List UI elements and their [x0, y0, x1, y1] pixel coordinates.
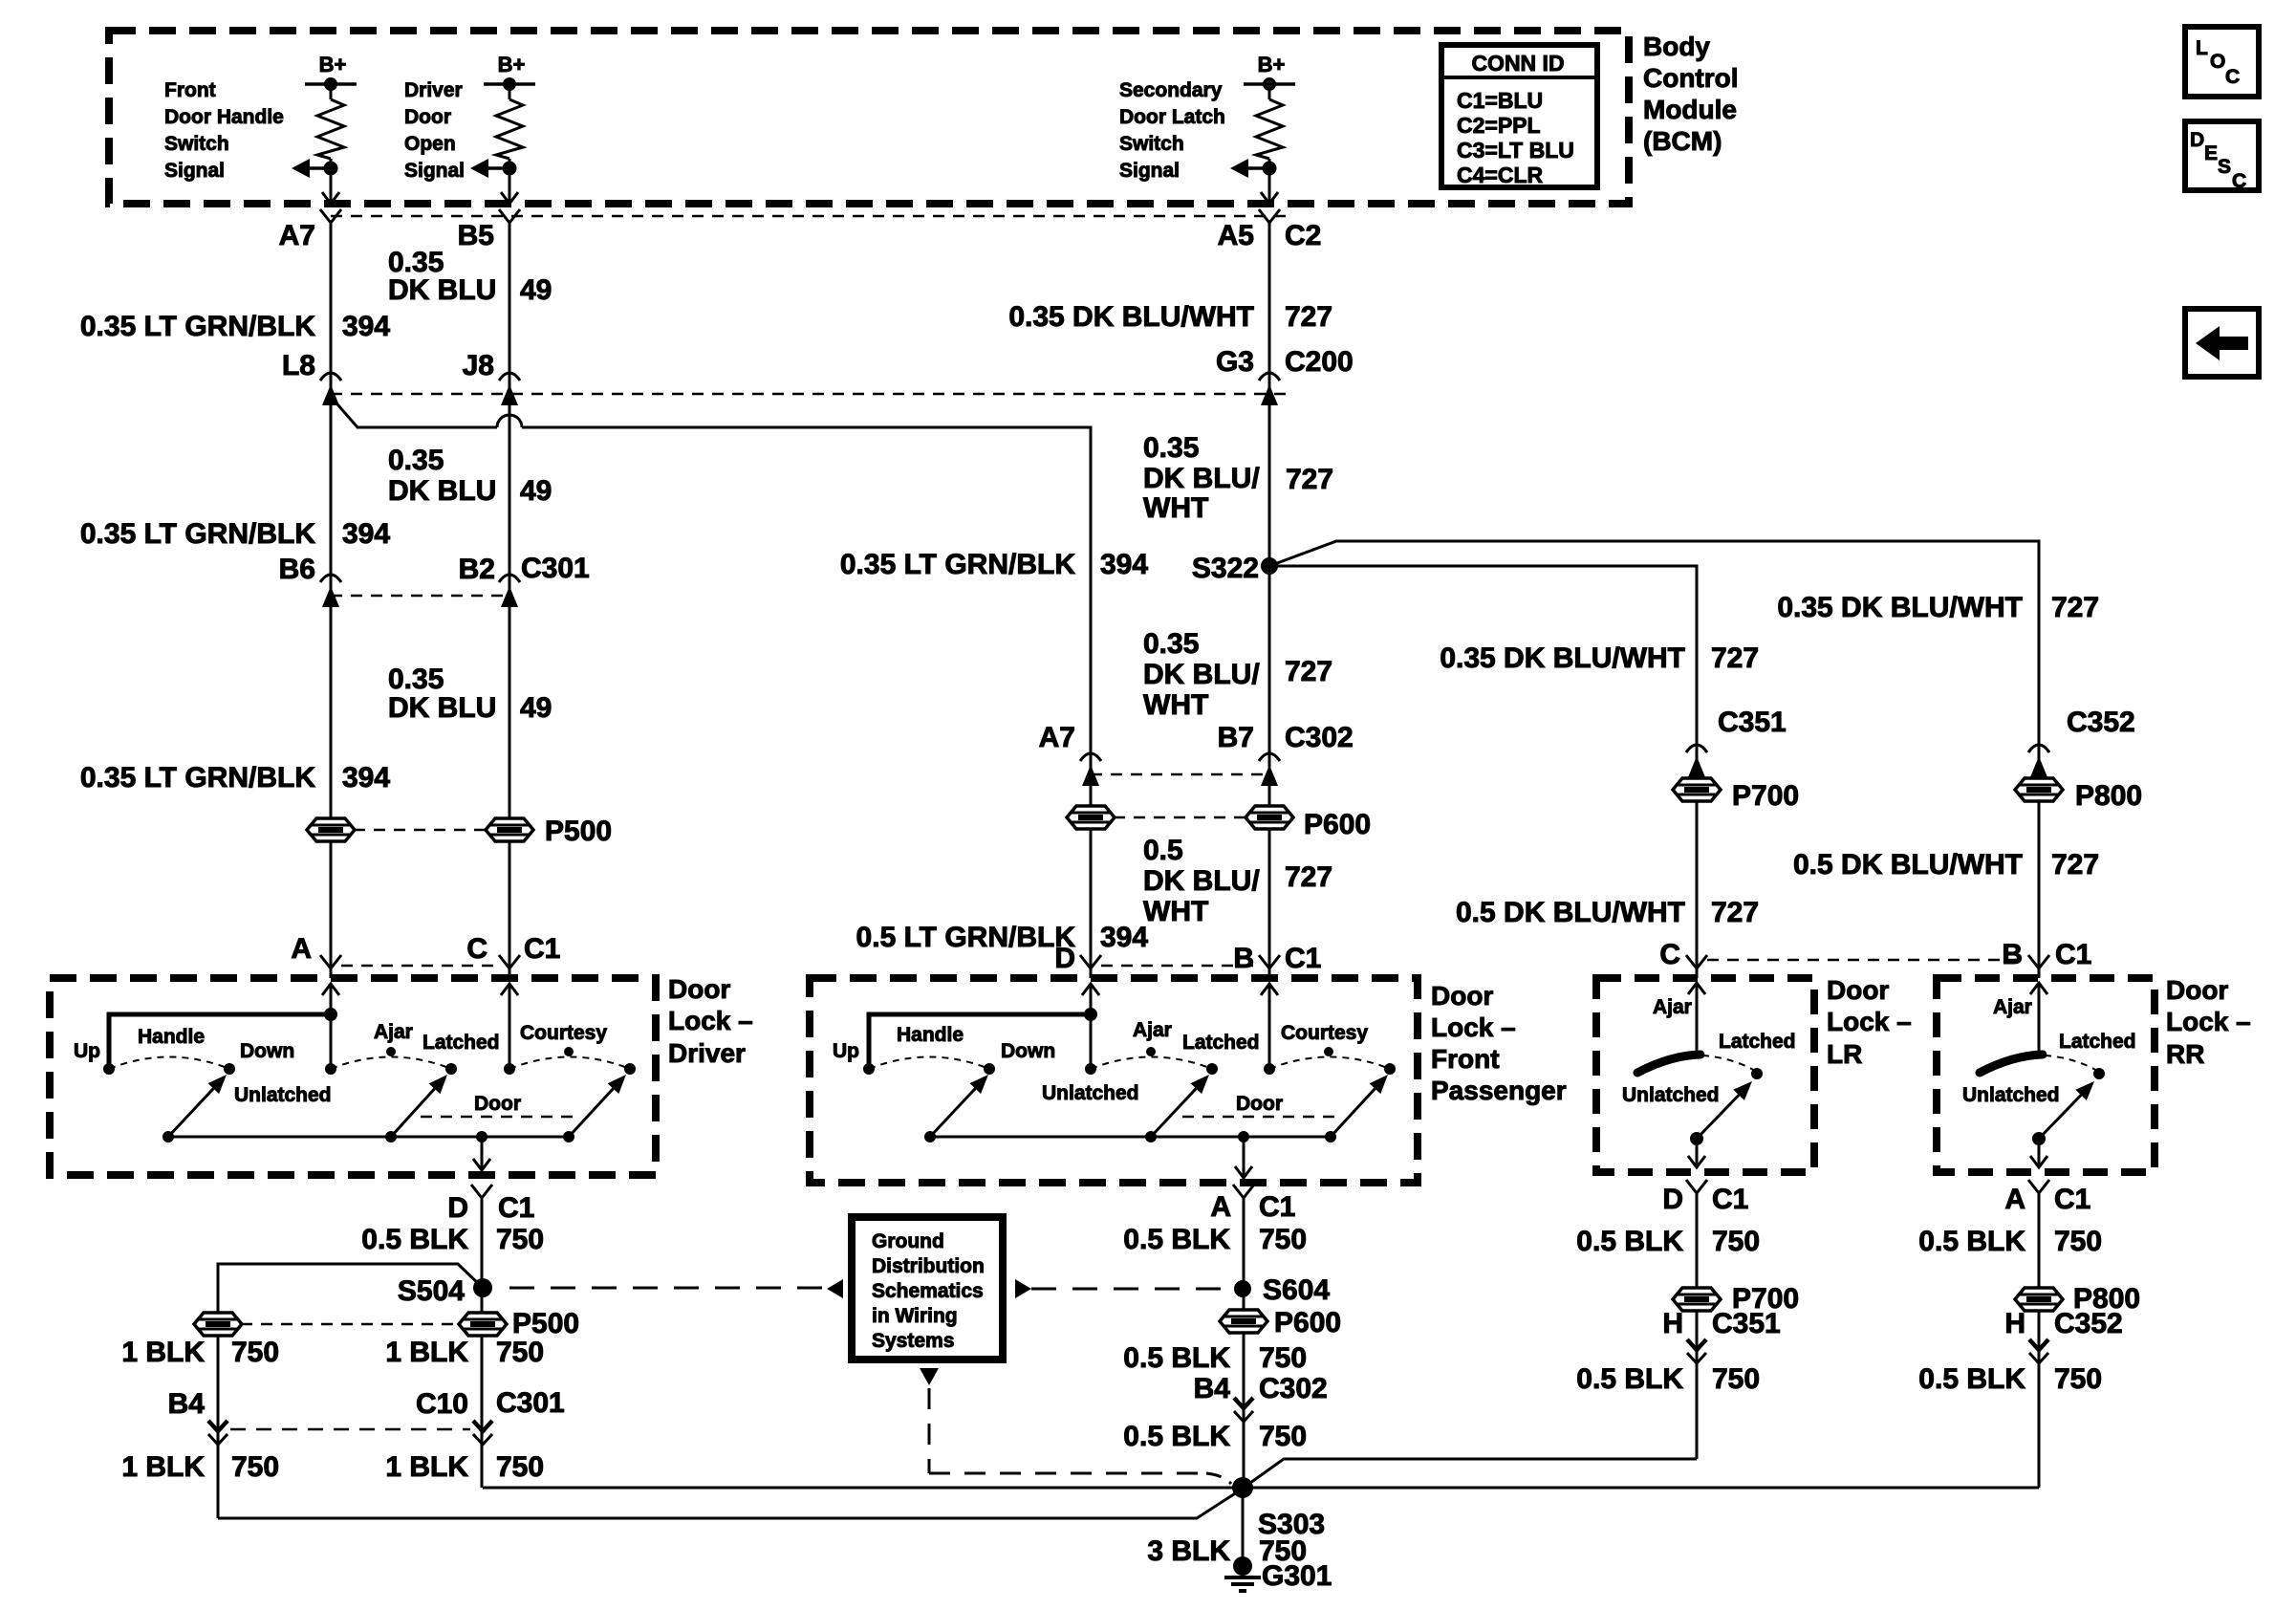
pass-through grommet P500 (driver door boot, ground) [194, 1308, 579, 1339]
svg-text:A7: A7 [1039, 722, 1075, 753]
svg-text:727: 727 [1711, 897, 1759, 928]
pass-through grommet P600 (front passenger door) [1067, 806, 1371, 840]
svg-text:750: 750 [496, 1337, 544, 1368]
driver switch entry arrow (courtesy wire) [501, 984, 518, 1069]
svg-text:0.5 BLK: 0.5 BLK [1123, 1421, 1230, 1452]
driver switch entry arrow (handle wire) [322, 984, 339, 1014]
wire: driver ground drop (x=504) [481, 1198, 484, 1488]
svg-text:C1: C1 [2054, 1184, 2090, 1215]
passenger switch Courtesy arc [1264, 1022, 1396, 1075]
wire label 0.5 DK BLU/WHT 727 (RR column) [1793, 849, 2099, 881]
CONN ID legend box [1441, 45, 1597, 187]
svg-text:CONN ID: CONN ID [1471, 51, 1564, 76]
svg-text:Front: Front [1431, 1044, 1500, 1074]
svg-text:Courtesy: Courtesy [1281, 1022, 1368, 1044]
driver switch common bus [162, 1131, 574, 1142]
pass-through grommet P500 (door harness, signal wires) [307, 816, 612, 847]
svg-text:B+: B+ [319, 53, 347, 76]
svg-text:A: A [2004, 1184, 2025, 1215]
wire label 0.5 BLK 750 (RR lower) [1918, 1363, 2102, 1395]
connector pin C (LR door lock) [1659, 939, 1707, 970]
wire label 0.35 LT GRN/BLK 394 (lower) [80, 762, 391, 794]
svg-text:Passenger: Passenger [1431, 1076, 1567, 1105]
RR ajar switch wire [1993, 983, 2047, 1055]
svg-text:WHT: WHT [1143, 896, 1208, 927]
svg-text:C: C [466, 933, 487, 965]
RR switch latched contact + dashed arc [1962, 1031, 2136, 1106]
splice S303 [1232, 1477, 1325, 1540]
svg-text:727: 727 [1285, 656, 1332, 687]
svg-text:D: D [1662, 1184, 1683, 1215]
driver switch Door linkage [421, 1093, 574, 1117]
connector terminal A7 [279, 209, 341, 251]
wire: driver ground run to S303 [483, 1487, 1243, 1490]
svg-text:A: A [291, 933, 312, 965]
svg-text:RR: RR [2166, 1039, 2204, 1069]
connector C302 ground terminal B4 [1194, 1373, 1328, 1422]
dashed reference: callout to S303 [920, 1368, 1231, 1484]
driver switch output wire [473, 1137, 490, 1170]
svg-text:1 BLK: 1 BLK [385, 1451, 468, 1483]
svg-text:750: 750 [231, 1337, 279, 1368]
svg-text:Lock –: Lock – [1431, 1012, 1516, 1042]
svg-text:727: 727 [2051, 592, 2099, 623]
Door Lock - RR label [2166, 975, 2251, 1069]
Door Lock - Driver dashed box [50, 978, 656, 1175]
svg-text:3 BLK: 3 BLK [1147, 1535, 1230, 1567]
wire label 0.35 LT GRN/BLK 394 (upper) [80, 311, 391, 342]
wire: passenger ground drop (x=1301) [1243, 1198, 1245, 1488]
connector C352 terminal [2028, 707, 2135, 777]
pass-through grommet P800 (RR, ground) [2015, 1283, 2140, 1315]
svg-text:L: L [2196, 37, 2208, 59]
svg-text:Signal: Signal [1119, 160, 1180, 182]
svg-text:Door Handle: Door Handle [164, 106, 284, 128]
svg-text:C352: C352 [2054, 1308, 2123, 1339]
callout left arrow [827, 1279, 843, 1298]
connector C301 line (B6/B2 row) [331, 595, 509, 598]
svg-text:394: 394 [342, 518, 390, 550]
svg-text:750: 750 [2054, 1363, 2102, 1395]
svg-text:S504: S504 [398, 1275, 465, 1307]
RR switch output wire [2030, 1139, 2047, 1167]
svg-text:B7: B7 [1218, 722, 1254, 753]
svg-text:C2: C2 [1285, 220, 1321, 251]
Door Lock - Front Passenger label [1431, 981, 1567, 1105]
svg-text:C10: C10 [416, 1388, 468, 1420]
Door Lock - Driver label [668, 974, 753, 1068]
DESC reference box [2185, 121, 2259, 192]
svg-text:C301: C301 [521, 553, 590, 584]
pass-through grommet P800 (RR door) [2015, 778, 2142, 812]
driver switch Up contact [74, 1040, 115, 1075]
svg-text:0.5 DK BLU/WHT: 0.5 DK BLU/WHT [1456, 897, 1685, 928]
splice S322 [1192, 553, 1278, 584]
Door Lock - LR dashed box [1596, 978, 1814, 1172]
driver switch Courtesy arc [504, 1022, 636, 1075]
svg-text:Handle: Handle [897, 1024, 964, 1046]
svg-text:1 BLK: 1 BLK [121, 1451, 205, 1483]
svg-text:C1: C1 [1285, 943, 1321, 974]
svg-text:B2: B2 [459, 554, 495, 585]
wire label 0.35 DK BLU 49 (lower) [388, 664, 552, 724]
wire label 0.35 DK BLU/WHT 727 (stacked, above S322) [1143, 432, 1333, 524]
wire: left ground run to S303 [218, 1489, 1243, 1518]
svg-text:0.35 DK BLU/WHT: 0.35 DK BLU/WHT [1440, 642, 1685, 674]
connector terminal B5 [458, 209, 520, 251]
wire: LR ground run to S303 [1244, 1459, 1697, 1488]
svg-text:Distribution: Distribution [872, 1255, 985, 1277]
passenger switch wire junction to unlatched contact [1090, 1014, 1093, 1069]
resistor: front door handle switch signal (B+ pull-up) [164, 53, 357, 204]
wire label 0.35 LT GRN/BLK 394 (front passenger) [840, 549, 1149, 580]
driver ground output terminal D / C1 [447, 1185, 534, 1224]
svg-text:Unlatched: Unlatched [1042, 1082, 1139, 1104]
connector terminal A5 / C2 [1218, 209, 1322, 251]
svg-text:C351: C351 [1712, 1308, 1781, 1339]
svg-text:Door: Door [1431, 981, 1493, 1011]
wire label 0.35 LT GRN/BLK 394 (middle) [80, 518, 391, 550]
passenger switch wiper arrow (handle) [930, 1075, 988, 1137]
svg-text:C1: C1 [1259, 1191, 1295, 1223]
svg-text:Switch: Switch [164, 133, 229, 155]
pass-through grommet P700 (LR, ground) [1673, 1283, 1799, 1315]
svg-text:49: 49 [520, 692, 552, 724]
svg-text:Latched: Latched [1182, 1032, 1260, 1054]
connector C352 ground terminal H [2004, 1308, 2122, 1363]
svg-text:0.35 LT GRN/BLK: 0.35 LT GRN/BLK [80, 311, 315, 342]
svg-text:0.5 BLK: 0.5 BLK [1576, 1226, 1683, 1257]
svg-text:Ground: Ground [872, 1230, 944, 1252]
wire: front door handle switch signal (x=346) [330, 223, 333, 978]
svg-text:E: E [2204, 142, 2218, 164]
LR switch lever (thick arc) [1637, 1055, 1700, 1073]
svg-text:Latched: Latched [2059, 1031, 2136, 1053]
svg-text:Signal: Signal [404, 160, 465, 182]
svg-text:49: 49 [520, 475, 552, 507]
svg-text:Front: Front [164, 79, 216, 101]
LOC reference box [2185, 27, 2259, 97]
wire label 0.35 DK BLU 49 (upper) [388, 247, 552, 306]
svg-text:C1: C1 [524, 933, 560, 965]
svg-text:727: 727 [1286, 464, 1333, 495]
svg-text:0.5 DK BLU/WHT: 0.5 DK BLU/WHT [1793, 849, 2023, 881]
svg-text:Systems: Systems [872, 1330, 954, 1352]
svg-text:Driver: Driver [404, 79, 463, 101]
svg-text:C1=BLU: C1=BLU [1457, 88, 1543, 113]
connector C351 ground terminal H [1662, 1308, 1780, 1363]
svg-text:(BCM): (BCM) [1643, 126, 1722, 156]
LR ajar switch wire [1653, 983, 1705, 1055]
svg-text:DK BLU/: DK BLU/ [1143, 463, 1260, 494]
svg-text:DK BLU: DK BLU [388, 475, 496, 507]
wire label 0.35 DK BLU/WHT 727 (RR column) [1777, 592, 2099, 623]
connector terminal B6 [279, 554, 341, 607]
svg-text:Lock –: Lock – [2166, 1007, 2251, 1036]
connector pin B / C1 (RR door lock) [1707, 939, 2091, 970]
driver switch wiper arrow (courtesy) [569, 1075, 626, 1137]
wire label 0.35 DK BLU 49 (middle) [388, 445, 552, 507]
passenger switch Up contact [833, 1040, 875, 1075]
passenger switch entry arrow (handle wire) [1082, 984, 1099, 1014]
svg-text:0.35: 0.35 [388, 664, 444, 695]
svg-text:B+: B+ [1258, 53, 1286, 76]
connector terminal G3 / C200 [1216, 346, 1354, 405]
svg-text:C1: C1 [1712, 1184, 1748, 1215]
wire label 0.5 BLK 750 (passenger mid) [1123, 1342, 1307, 1374]
svg-text:Up: Up [74, 1040, 100, 1062]
svg-text:S604: S604 [1263, 1274, 1330, 1306]
svg-text:Ajar: Ajar [1653, 996, 1692, 1018]
Door Lock - Front Passenger dashed box [810, 978, 1418, 1183]
passenger switch Door linkage [1182, 1093, 1335, 1117]
svg-text:P800: P800 [2075, 780, 2142, 812]
wire: S322 to LR door (lower branch) [1269, 566, 1697, 978]
wire label 0.5 BLK 750 (driver) [361, 1224, 544, 1255]
svg-text:750: 750 [1712, 1363, 1760, 1395]
svg-text:Door: Door [1827, 975, 1889, 1005]
svg-text:Lock –: Lock – [668, 1006, 753, 1035]
wire: LR ground drop (x=1775) [1696, 1193, 1699, 1459]
connector C351 terminal [1686, 707, 1787, 777]
svg-text:Door Latch: Door Latch [1119, 106, 1225, 128]
svg-text:C200: C200 [1285, 346, 1354, 378]
svg-text:H: H [1662, 1308, 1683, 1339]
svg-text:Schematics: Schematics [872, 1280, 984, 1302]
driver switch wiper arrow (latch) [391, 1075, 447, 1137]
Door Lock - RR dashed box [1937, 978, 2155, 1172]
svg-text:0.35 LT GRN/BLK: 0.35 LT GRN/BLK [840, 549, 1075, 580]
BCM label: Body Control Module (BCM) [1643, 32, 1739, 156]
svg-text:Door: Door [2166, 975, 2228, 1005]
resistor: driver door open signal (B+ pull-up) [404, 53, 535, 204]
svg-text:Ajar: Ajar [1133, 1019, 1172, 1041]
svg-text:LR: LR [1827, 1039, 1862, 1069]
svg-text:0.5: 0.5 [1143, 835, 1183, 866]
svg-text:A7: A7 [279, 220, 315, 251]
svg-text:49: 49 [520, 274, 552, 306]
driver switch Handle arc [109, 1026, 294, 1075]
svg-text:C351: C351 [1718, 707, 1787, 738]
passenger switch Handle arc [869, 1024, 1055, 1075]
svg-text:727: 727 [1285, 301, 1332, 333]
wire: front passenger 394 wire lower (x=1141) [1090, 828, 1093, 978]
connector C201 line (L8/J8 row) [331, 393, 1286, 396]
wire label 0.35 DK BLU/WHT 727 (below C2) [1008, 301, 1332, 333]
splice S604 [1234, 1274, 1330, 1306]
svg-text:750: 750 [496, 1224, 544, 1255]
RR ground output terminal A / C1 [2004, 1180, 2090, 1215]
dashed reference: callout to S604 [1031, 1288, 1231, 1291]
svg-text:WHT: WHT [1143, 492, 1208, 524]
svg-text:C302: C302 [1259, 1373, 1328, 1404]
wire: 394 LT GRN/BLK branch to front passenger door [332, 398, 1091, 808]
wire label 0.35 DK BLU/WHT 727 (stacked, below S322) [1143, 628, 1332, 721]
svg-text:D: D [2190, 129, 2204, 151]
svg-text:WHT: WHT [1143, 689, 1208, 721]
svg-text:750: 750 [1712, 1226, 1760, 1257]
svg-text:394: 394 [342, 311, 390, 342]
svg-text:S: S [2218, 156, 2231, 178]
svg-text:L8: L8 [282, 350, 315, 381]
svg-text:Driver: Driver [668, 1038, 746, 1068]
driver switch wiper arrow (handle) [168, 1075, 227, 1137]
svg-text:Down: Down [1001, 1040, 1055, 1062]
connector terminal B2 / C301 [459, 553, 590, 607]
svg-text:C: C [2232, 170, 2246, 192]
LR switch output wire [1688, 1139, 1705, 1167]
svg-text:B6: B6 [279, 554, 315, 585]
connector terminal J8 [463, 350, 520, 405]
LR switch wiper arrow [1690, 1081, 1752, 1145]
svg-text:C302: C302 [1285, 722, 1354, 753]
svg-text:A5: A5 [1218, 220, 1254, 251]
wire label 0.5 BLK 750 (LR upper) [1576, 1226, 1760, 1257]
connector C302 line (A7/B7 row) [1091, 773, 1269, 776]
svg-text:Courtesy: Courtesy [520, 1022, 607, 1044]
svg-text:C2=PPL: C2=PPL [1457, 113, 1541, 138]
svg-text:0.5 BLK: 0.5 BLK [361, 1224, 468, 1255]
svg-text:Door: Door [668, 974, 730, 1004]
wire label 1 BLK 750 (lower pair) [121, 1451, 544, 1483]
svg-text:Open: Open [404, 133, 456, 155]
RR switch lever (thick arc) [1980, 1055, 2043, 1073]
svg-text:C: C [1659, 939, 1680, 970]
svg-text:Ajar: Ajar [1993, 996, 2032, 1018]
wire label 1 BLK 750 (left pair) [121, 1337, 544, 1368]
svg-text:Unlatched: Unlatched [1962, 1084, 2060, 1106]
svg-text:C: C [2225, 66, 2240, 88]
svg-text:0.35: 0.35 [1143, 432, 1199, 464]
svg-text:727: 727 [1285, 861, 1332, 893]
driver switch wire junction to unlatched contact [330, 1014, 333, 1069]
svg-text:B: B [2002, 939, 2023, 970]
svg-text:Control: Control [1643, 63, 1739, 93]
svg-text:Module: Module [1643, 95, 1737, 124]
svg-text:727: 727 [1711, 642, 1759, 674]
splice S504 [398, 1275, 492, 1307]
LR switch latched contact + dashed arc [1622, 1031, 1796, 1106]
passenger switch Ajar arc [1042, 1019, 1260, 1104]
svg-text:0.35 LT GRN/BLK: 0.35 LT GRN/BLK [80, 762, 315, 794]
svg-text:G3: G3 [1216, 346, 1254, 378]
svg-text:1 BLK: 1 BLK [121, 1337, 205, 1368]
passenger switch wiper arrow (latch) [1151, 1075, 1209, 1137]
svg-text:B5: B5 [458, 220, 494, 251]
svg-text:1 BLK: 1 BLK [385, 1337, 468, 1368]
svg-text:Door: Door [404, 106, 451, 128]
svg-text:P600: P600 [1304, 809, 1371, 840]
Body Control Module (BCM) dashed box [109, 31, 1629, 204]
wire label 0.5 LT GRN/BLK 394 [856, 922, 1149, 953]
callout right arrow [1015, 1279, 1031, 1298]
svg-text:H: H [2004, 1308, 2025, 1339]
passenger switch: wire to Up contact [869, 1008, 1097, 1069]
svg-text:Unlatched: Unlatched [1622, 1084, 1720, 1106]
connector pins D / B / C1 (front passenger door lock) [1054, 943, 1321, 974]
passenger switch entry arrow (courtesy wire) [1261, 984, 1278, 1069]
driver switch: wire to Up contact [109, 1008, 337, 1069]
passenger switch output wire [1235, 1137, 1252, 1178]
svg-text:O: O [2210, 51, 2225, 73]
svg-text:750: 750 [2054, 1226, 2102, 1257]
svg-text:DK BLU: DK BLU [388, 692, 496, 724]
driver switch Ajar arc [234, 1021, 500, 1106]
passenger switch wiper arrow (courtesy) [1331, 1075, 1388, 1137]
svg-text:Latched: Latched [1719, 1031, 1796, 1053]
svg-text:Body: Body [1643, 32, 1710, 61]
svg-text:Door: Door [1236, 1093, 1283, 1115]
svg-text:0.35 DK BLU/WHT: 0.35 DK BLU/WHT [1008, 301, 1254, 333]
connector line below BCM (C2 row) [331, 215, 1286, 218]
wire label 0.5 BLK 750 (passenger upper) [1123, 1224, 1307, 1255]
svg-text:Latched: Latched [422, 1032, 500, 1054]
svg-text:0.35: 0.35 [388, 445, 444, 476]
wire label 0.5 BLK 750 (RR upper) [1918, 1226, 2102, 1257]
Ground Distribution Schematics callout box [852, 1217, 1003, 1360]
svg-text:750: 750 [231, 1451, 279, 1483]
wire label 3 BLK 750 (to ground) [1147, 1535, 1307, 1567]
svg-text:Up: Up [833, 1040, 859, 1062]
svg-text:750: 750 [1259, 1224, 1307, 1255]
wire label 0.5 BLK 750 (LR lower) [1576, 1363, 1760, 1395]
svg-text:DK BLU/: DK BLU/ [1143, 659, 1260, 690]
svg-text:C1: C1 [2055, 939, 2091, 970]
wire: secondary door latch signal 727 (x=1328) [1268, 223, 1271, 978]
connector pins A / C / C1 (driver door lock) [291, 933, 560, 968]
wire label 0.5 DK BLU/WHT 727 (stacked) [1143, 835, 1332, 927]
resistor: secondary door latch switch signal (B+ pull-up) [1119, 53, 1295, 204]
connector terminal L8 [282, 350, 341, 405]
wire label 0.5 DK BLU/WHT 727 (LR column) [1456, 897, 1759, 928]
svg-text:0.5 BLK: 0.5 BLK [1576, 1363, 1683, 1395]
LR ground output terminal D / C1 [1662, 1180, 1748, 1215]
svg-text:0.5 BLK: 0.5 BLK [1918, 1226, 2025, 1257]
wire: S504 branch to door harness [218, 1264, 483, 1518]
svg-text:Handle: Handle [138, 1026, 205, 1048]
svg-text:B4: B4 [168, 1388, 206, 1420]
svg-text:P500: P500 [545, 816, 612, 847]
svg-text:Unlatched: Unlatched [234, 1084, 332, 1106]
svg-text:0.5 LT GRN/BLK: 0.5 LT GRN/BLK [856, 922, 1076, 953]
svg-text:0.5 BLK: 0.5 BLK [1123, 1342, 1230, 1374]
connector terminal A7 (front passenger) [1039, 722, 1101, 786]
connector terminal B7 / C302 [1218, 722, 1354, 786]
svg-text:Lock –: Lock – [1827, 1007, 1912, 1036]
svg-text:D: D [447, 1192, 468, 1224]
passenger switch common bus [924, 1131, 1336, 1142]
wire label 0.35 DK BLU/WHT 727 (LR column) [1440, 642, 1759, 674]
svg-text:Ajar: Ajar [374, 1021, 413, 1043]
svg-text:0.35 LT GRN/BLK: 0.35 LT GRN/BLK [80, 518, 315, 550]
svg-text:D: D [1054, 943, 1075, 974]
wire label 0.5 BLK 750 (passenger lower) [1123, 1421, 1307, 1452]
svg-text:Signal: Signal [164, 160, 225, 182]
svg-text:750: 750 [1259, 1342, 1307, 1374]
svg-text:B+: B+ [498, 53, 526, 76]
passenger ground output terminal A / C1 [1210, 1185, 1295, 1223]
Door Lock - LR label [1827, 975, 1912, 1069]
svg-text:Secondary: Secondary [1119, 79, 1223, 101]
pass-through grommet P700 (LR door) [1673, 778, 1799, 812]
svg-text:0.5 BLK: 0.5 BLK [1123, 1224, 1230, 1255]
svg-text:C301: C301 [496, 1387, 565, 1419]
svg-text:A: A [1210, 1191, 1231, 1223]
wire: driver door open signal (x=533) [509, 223, 511, 978]
svg-text:J8: J8 [463, 350, 494, 381]
svg-text:B4: B4 [1194, 1373, 1231, 1404]
svg-text:750: 750 [1259, 1421, 1307, 1452]
